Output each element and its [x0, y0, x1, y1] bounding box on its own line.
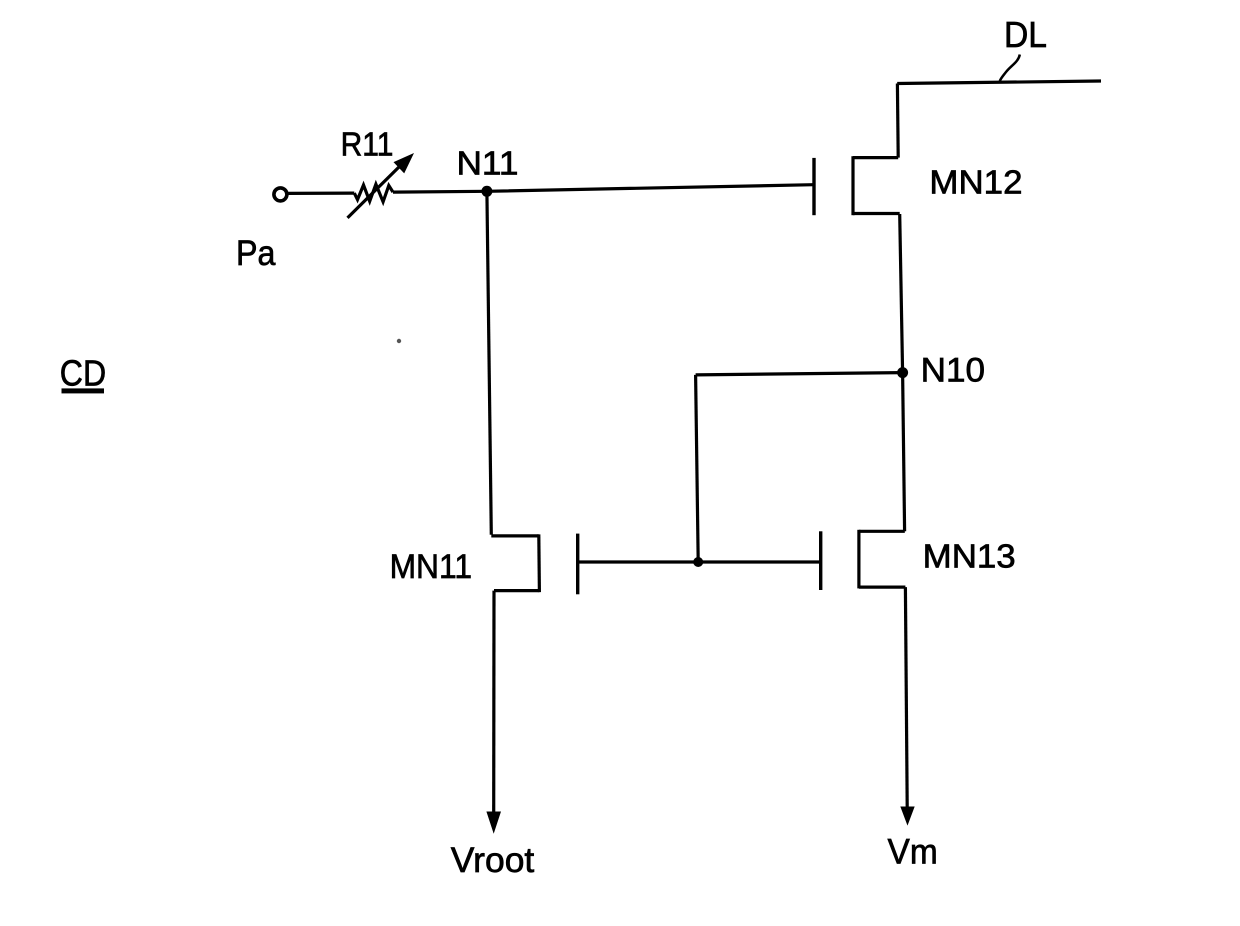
- svg-text:N11: N11: [457, 145, 519, 182]
- svg-text:Pa: Pa: [236, 234, 276, 273]
- svg-text:MN12: MN12: [929, 164, 1022, 201]
- svg-text:Vm: Vm: [888, 833, 938, 872]
- svg-text:MN13: MN13: [923, 538, 1016, 575]
- svg-text:MN11: MN11: [390, 548, 472, 586]
- svg-text:Vroot: Vroot: [451, 841, 535, 880]
- svg-text:CD: CD: [60, 353, 106, 394]
- svg-text:N10: N10: [921, 352, 985, 390]
- svg-text:R11: R11: [341, 126, 394, 163]
- svg-text:DL: DL: [1004, 14, 1047, 55]
